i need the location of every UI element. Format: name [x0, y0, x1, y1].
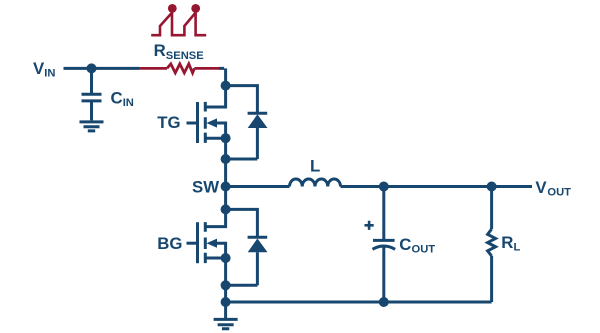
svg-text:V: V: [535, 178, 547, 197]
capacitor COUT: [373, 187, 396, 303]
plus sign COUT: [365, 221, 374, 230]
label BG: [157, 234, 182, 253]
wire bottom rail: [226, 301, 492, 304]
node COUT top junction: [379, 182, 389, 192]
current pulse waveform icon: [151, 4, 206, 35]
svg-text:OUT: OUT: [547, 187, 571, 199]
label TG: [157, 113, 180, 132]
transistor BG (low-side MOSFET): [187, 222, 226, 263]
wire BG source to ground: [224, 258, 227, 319]
svg-text:IN: IN: [123, 97, 134, 109]
svg-text:C: C: [111, 88, 123, 107]
inductor L: [290, 179, 341, 186]
svg-text:TG: TG: [157, 113, 180, 132]
node RL top junction: [487, 182, 497, 192]
wire TG diode branch top: [226, 86, 258, 114]
diode D2 (BG body diode): [248, 236, 268, 239]
wire corner to TG drain: [205, 68, 225, 107]
ground CIN: [80, 122, 104, 131]
diode D1 (TG body diode): [248, 112, 268, 115]
svg-text:V: V: [33, 59, 45, 78]
node VIN/CIN junction: [87, 63, 97, 73]
transistor TG (high-side MOSFET): [187, 102, 226, 143]
wire BG diode branch bottom: [226, 284, 258, 287]
node BG source/diode junction: [221, 280, 231, 290]
label CIN: [111, 88, 134, 109]
ground main: [214, 319, 238, 328]
node SW: [221, 182, 231, 192]
svg-text:IN: IN: [44, 68, 55, 80]
node TG drain junction: [221, 81, 231, 91]
node BG drain/diode junction: [221, 204, 231, 214]
wire BG diode branch top: [226, 209, 258, 237]
svg-text:BG: BG: [157, 234, 182, 253]
node BG source dot: [221, 253, 231, 263]
resistor RSENSE: [139, 64, 219, 73]
wire inductor to VOUT: [341, 185, 533, 188]
label VIN: [33, 59, 55, 80]
capacitor CIN: [82, 68, 102, 120]
svg-text:SW: SW: [192, 178, 219, 197]
node bottom rail junction: [221, 297, 231, 307]
label RL: [501, 233, 520, 254]
svg-text:R: R: [501, 233, 513, 252]
wire TG diode branch bottom: [226, 158, 258, 161]
svg-text:SENSE: SENSE: [166, 50, 204, 62]
label RSENSE: [154, 41, 205, 62]
svg-text:C: C: [399, 235, 411, 254]
svg-text:OUT: OUT: [412, 244, 436, 256]
label VOUT: [535, 178, 571, 199]
svg-text:L: L: [514, 242, 521, 254]
node TG source/diode junction: [221, 154, 231, 164]
node TG source dot: [221, 133, 231, 143]
wire main rail TG source to BG drain: [205, 138, 225, 226]
wire SW to inductor: [226, 185, 290, 188]
label L: [310, 156, 320, 175]
svg-text:L: L: [310, 156, 320, 175]
label SW: [192, 178, 219, 197]
wire VIN to RSENSE: [64, 67, 140, 70]
node COUT bottom junction: [379, 297, 389, 307]
label COUT: [399, 235, 435, 256]
svg-text:R: R: [154, 41, 166, 60]
resistor RL: [490, 187, 493, 230]
